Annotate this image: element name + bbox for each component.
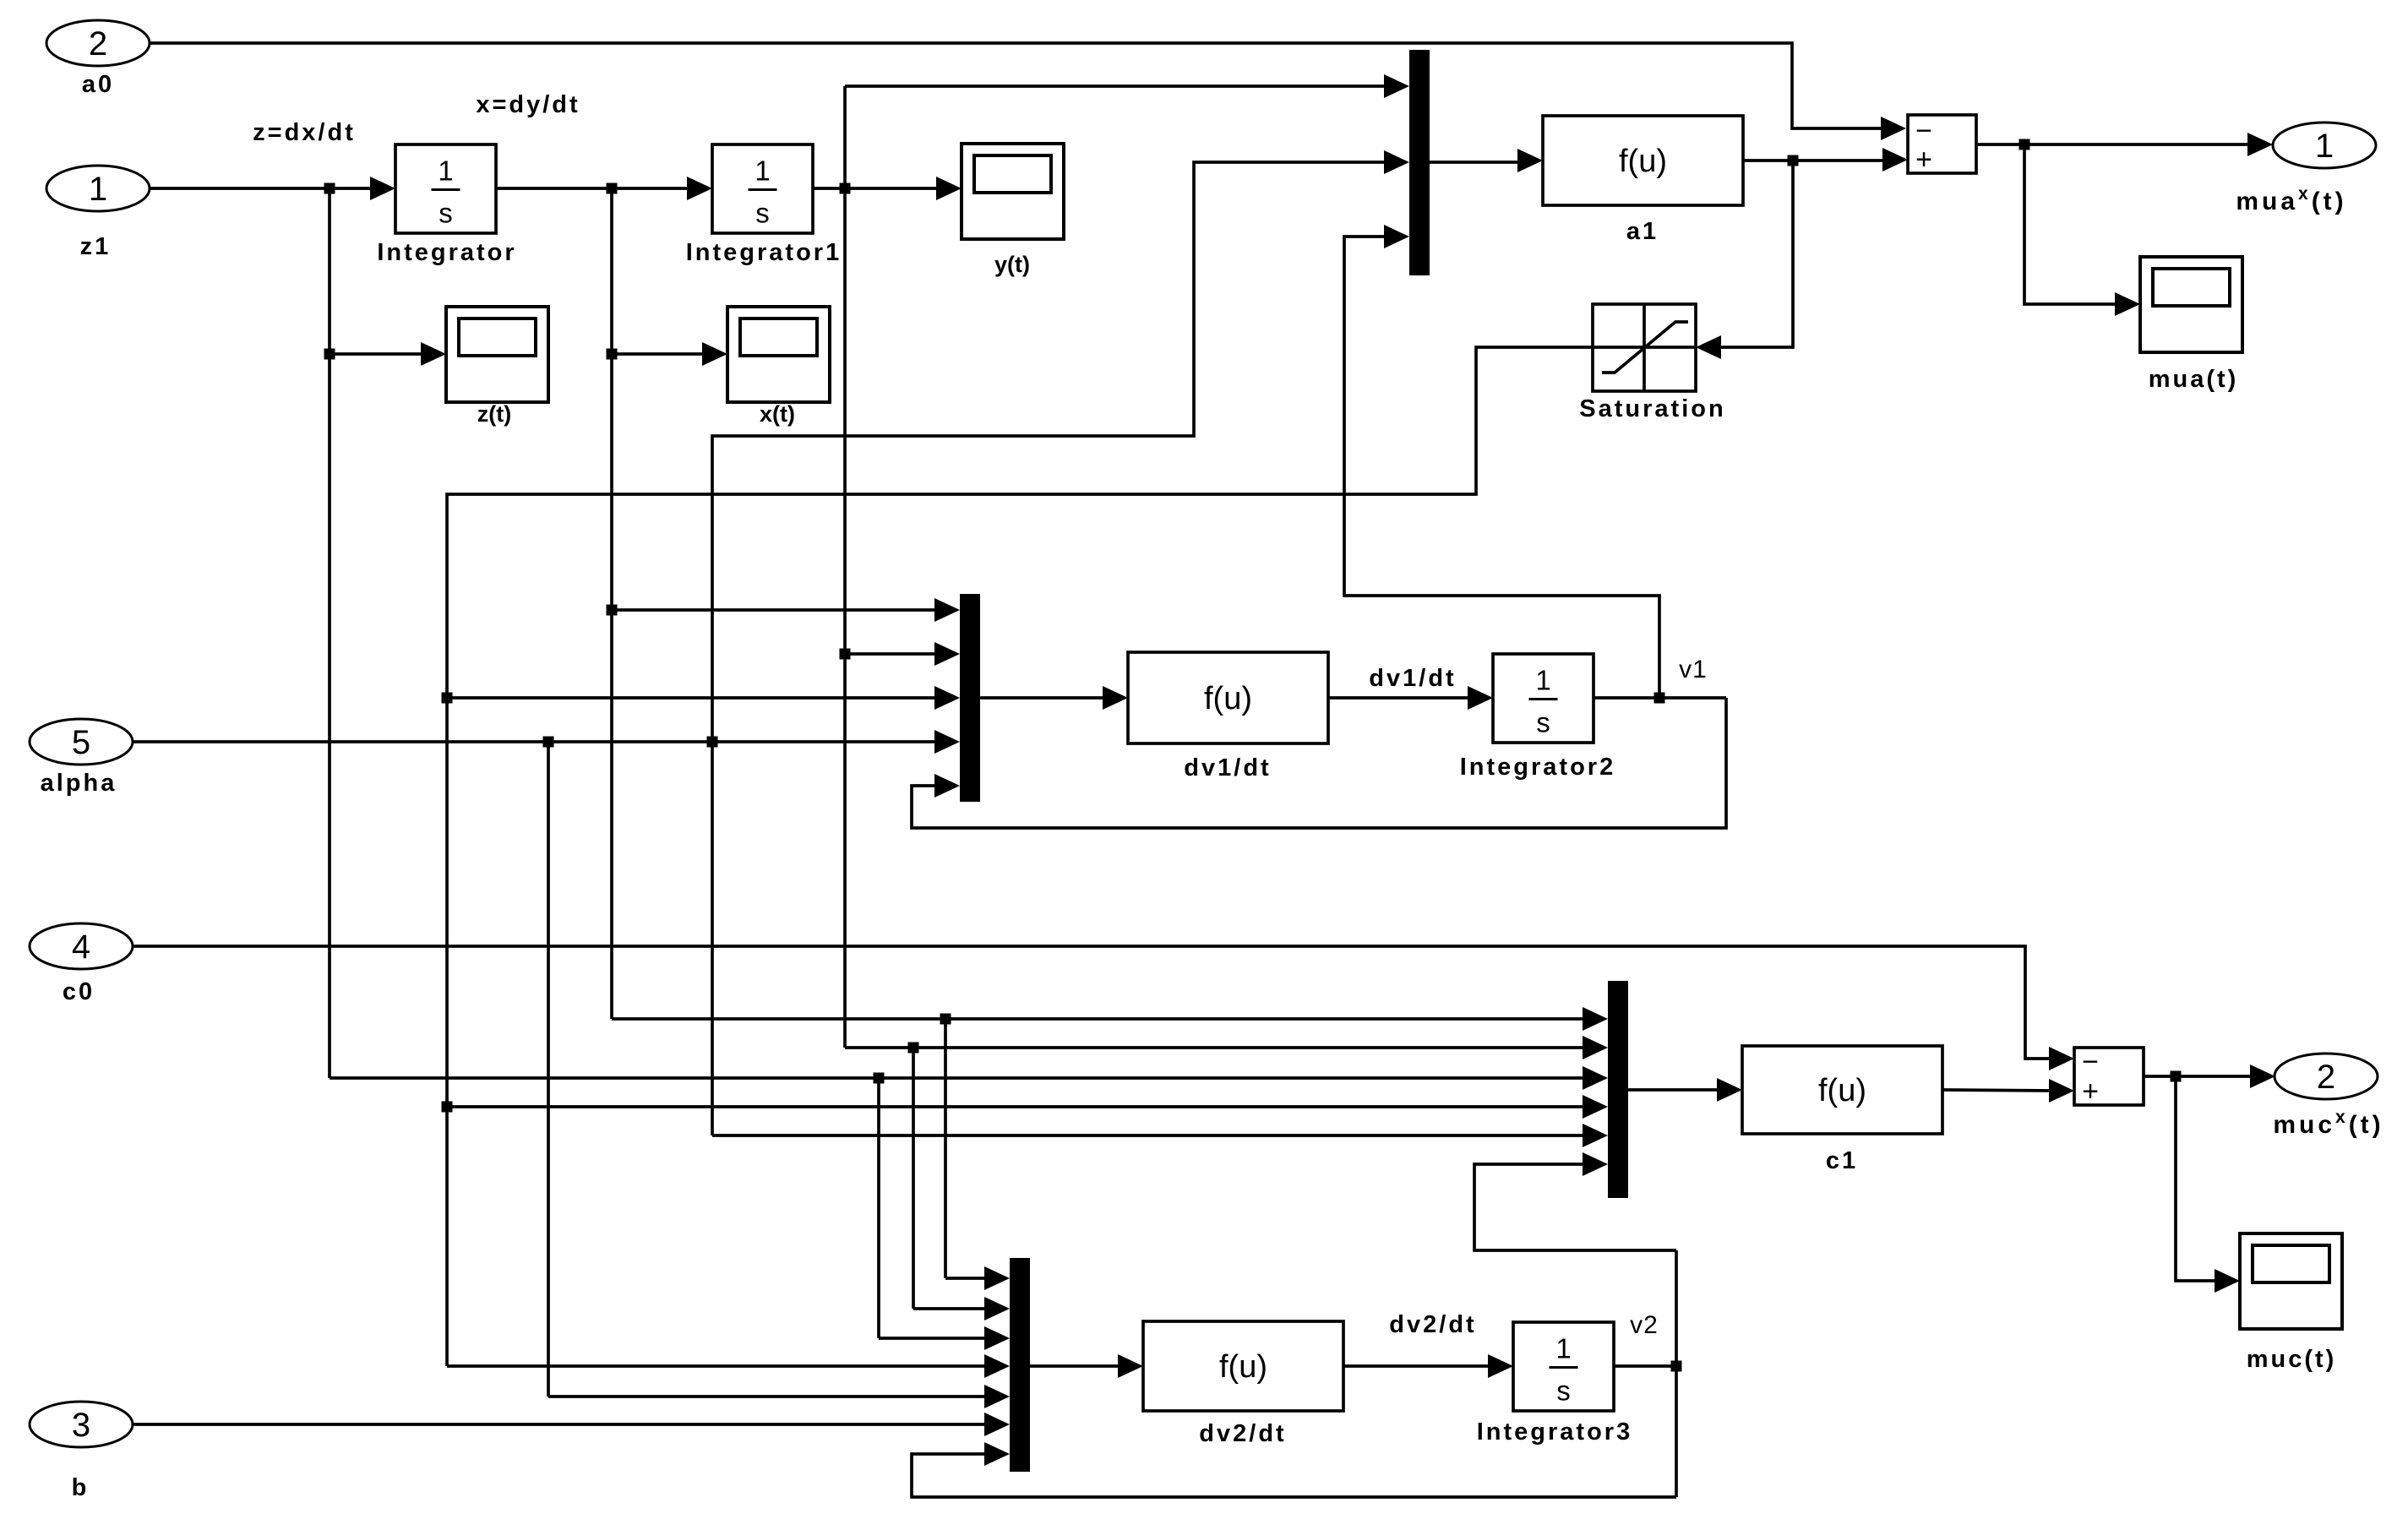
svg-text:b: b [72,1474,90,1501]
svg-text:x=dy/dt: x=dy/dt [476,91,580,118]
svg-text:z1: z1 [80,233,112,260]
svg-text:alpha: alpha [41,770,117,797]
svg-text:x(t): x(t) [760,401,795,427]
svg-text:5: 5 [72,724,90,761]
svg-text:1: 1 [438,155,453,187]
svg-text:1: 1 [2315,128,2334,165]
svg-text:dv2/dt: dv2/dt [1389,1311,1476,1338]
svg-text:f(u): f(u) [1204,681,1252,716]
svg-text:muc(t): muc(t) [2247,1346,2337,1373]
svg-text:c1: c1 [1826,1147,1858,1174]
svg-text:s: s [755,198,770,229]
svg-text:2: 2 [89,25,107,63]
svg-text:−: − [1915,115,1932,147]
svg-text:4: 4 [72,928,90,966]
svg-text:mua(t): mua(t) [2149,366,2239,393]
svg-text:2: 2 [2317,1059,2335,1096]
svg-text:f(u): f(u) [1219,1349,1267,1385]
svg-text:1: 1 [1535,665,1550,696]
svg-text:mucx(t): mucx(t) [2273,1108,2383,1139]
svg-text:3: 3 [72,1407,90,1444]
svg-text:s: s [439,198,453,229]
svg-text:s: s [1556,1375,1571,1407]
svg-text:Integrator1: Integrator1 [686,239,842,266]
svg-text:y(t): y(t) [994,252,1030,277]
svg-text:dv2/dt: dv2/dt [1199,1420,1286,1447]
svg-text:c0: c0 [63,978,95,1005]
svg-text:+: + [2082,1075,2099,1108]
svg-text:muax(t): muax(t) [2236,184,2346,215]
svg-text:z=dx/dt: z=dx/dt [253,119,356,146]
svg-text:Integrator2: Integrator2 [1460,754,1615,781]
svg-text:s: s [1536,707,1550,738]
svg-text:Saturation: Saturation [1579,395,1725,422]
svg-text:f(u): f(u) [1818,1073,1866,1108]
svg-text:Integrator3: Integrator3 [1477,1418,1632,1446]
svg-text:1: 1 [1555,1333,1571,1364]
svg-text:a1: a1 [1626,218,1659,245]
svg-text:z(t): z(t) [477,401,511,427]
svg-text:f(u): f(u) [1619,144,1667,179]
svg-text:−: − [2082,1046,2099,1078]
svg-text:Integrator: Integrator [377,239,516,266]
svg-text:1: 1 [755,155,770,187]
svg-text:v1: v1 [1679,656,1708,683]
svg-text:+: + [1915,144,1932,176]
svg-text:1: 1 [89,171,107,208]
svg-text:v2: v2 [1630,1311,1659,1339]
svg-text:dv1/dt: dv1/dt [1369,665,1456,692]
svg-text:a0: a0 [82,71,114,98]
svg-text:dv1/dt: dv1/dt [1184,754,1271,781]
